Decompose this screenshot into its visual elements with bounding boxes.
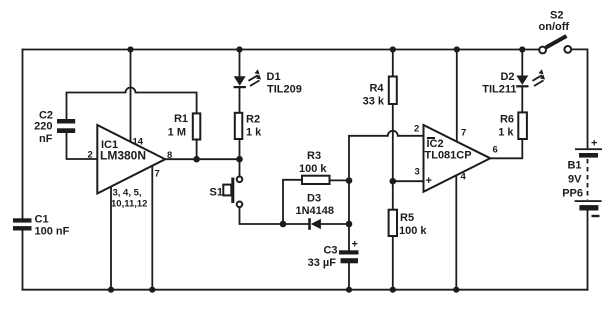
svg-text:4: 4 bbox=[461, 172, 467, 183]
svg-text:LM380N: LM380N bbox=[100, 149, 146, 163]
pushbutton S1 bbox=[210, 177, 243, 208]
svg-text:2: 2 bbox=[88, 150, 93, 161]
wire R4 top lead bbox=[392, 50, 394, 77]
capacitor C2 bbox=[34, 110, 75, 146]
wire IC2 pin 4 to bottom rail bbox=[455, 175, 457, 290]
node junction bottom rail / R5 bbox=[390, 287, 396, 293]
wire left rail upper (top rail to C1) bbox=[22, 50, 24, 219]
wire S1 bottom to D3 cathode bbox=[240, 207, 309, 224]
wire S1 top lead bbox=[239, 159, 241, 176]
svg-text:220: 220 bbox=[34, 121, 52, 133]
svg-text:R3: R3 bbox=[307, 150, 321, 162]
svg-text:7: 7 bbox=[155, 169, 160, 180]
resistor R6 bbox=[498, 112, 527, 139]
wire S2 to battery positive bbox=[571, 49, 588, 148]
wire battery negative to bottom rail bbox=[587, 211, 589, 289]
svg-text:D3: D3 bbox=[307, 193, 321, 205]
svg-text:D1: D1 bbox=[267, 71, 281, 83]
node junction R4 / R5 / pin 3 bbox=[390, 178, 397, 185]
resistor R3 bbox=[299, 150, 330, 184]
svg-text:D2: D2 bbox=[500, 71, 514, 83]
svg-text:1 k: 1 k bbox=[498, 127, 514, 139]
resistor R5 bbox=[389, 210, 428, 237]
svg-text:C3: C3 bbox=[323, 245, 337, 257]
node junction top rail / IC2 pin 7 bbox=[454, 46, 460, 52]
svg-text:+: + bbox=[591, 138, 597, 150]
svg-text:3: 3 bbox=[415, 167, 420, 178]
wire D2 cathode to R6 top bbox=[521, 88, 523, 113]
svg-text:1 k: 1 k bbox=[246, 127, 262, 139]
LED D2 TIL211 bbox=[482, 69, 545, 95]
wire R2 bottom to output node bbox=[239, 139, 241, 159]
wire C2 top to R1 top (hop over pin-14 wire) bbox=[67, 88, 197, 120]
node junction bottom rail / IC1 ground pins bbox=[108, 287, 114, 293]
wire D3 anode to C3 node bbox=[321, 223, 349, 225]
LED D1 TIL209 bbox=[234, 69, 302, 95]
node junction S1 wire / R3 left bbox=[280, 221, 287, 228]
svg-text:S2: S2 bbox=[550, 10, 563, 22]
wire D1 top lead bbox=[239, 50, 241, 77]
wire R4 bottom to R5 top bbox=[392, 104, 394, 210]
node junction top rail / R4 bbox=[390, 46, 396, 52]
op-amp IC1 LM380N bbox=[97, 125, 165, 194]
svg-text:+: + bbox=[352, 239, 358, 251]
svg-text:8: 8 bbox=[167, 150, 172, 161]
wire IC2 pin 6 output to R6 bottom bbox=[490, 139, 522, 158]
wire IC2 pin 2 to C3/R3 node (hop over R4 wire) bbox=[349, 131, 424, 251]
svg-text:33 µF: 33 µF bbox=[308, 257, 337, 269]
wire D2 top lead bbox=[521, 50, 523, 76]
svg-text:10,11,12: 10,11,12 bbox=[111, 199, 147, 210]
capacitor C1 bbox=[13, 214, 70, 238]
wire bottom ground rail bbox=[23, 289, 588, 291]
svg-text:TL081CP: TL081CP bbox=[425, 150, 472, 162]
wire top supply rail bbox=[23, 49, 540, 51]
node junction bottom rail / IC1 pin 7 bbox=[149, 287, 155, 293]
svg-text:R5: R5 bbox=[400, 212, 414, 224]
svg-text:14: 14 bbox=[133, 137, 144, 148]
svg-text:9V: 9V bbox=[568, 174, 582, 186]
wire R1 bottom to output node bbox=[196, 140, 198, 160]
node junction top rail / D1 bbox=[236, 46, 242, 52]
wire IC1 pin 8 output bbox=[165, 158, 240, 160]
resistor R2 bbox=[235, 113, 262, 139]
svg-text:TIL209: TIL209 bbox=[267, 84, 302, 96]
resistor R1 bbox=[168, 113, 201, 140]
node junction D3 / C3 bbox=[346, 221, 353, 228]
svg-text:nF: nF bbox=[39, 133, 53, 145]
svg-text:C1: C1 bbox=[35, 214, 49, 226]
node junction top rail / D2 bbox=[519, 46, 525, 52]
svg-text:B1: B1 bbox=[567, 160, 581, 172]
node junction R3 right / pin2 net bbox=[346, 177, 353, 184]
capacitor C3 (electrolytic) bbox=[308, 239, 359, 270]
node junction output / R1 bbox=[193, 156, 200, 163]
svg-text:1 M: 1 M bbox=[168, 127, 186, 139]
svg-text:TIL211: TIL211 bbox=[482, 84, 516, 96]
svg-text:S1: S1 bbox=[210, 187, 223, 199]
wire R5 bottom to bottom rail bbox=[392, 236, 394, 290]
svg-text:1N4148: 1N4148 bbox=[296, 205, 335, 217]
svg-text:3, 4, 5,: 3, 4, 5, bbox=[113, 188, 142, 199]
svg-text:2: 2 bbox=[414, 124, 419, 135]
wire C3 bottom to bottom rail bbox=[348, 263, 350, 289]
svg-text:33 k: 33 k bbox=[363, 96, 385, 108]
svg-text:+: + bbox=[426, 175, 432, 187]
resistor R4 bbox=[363, 77, 397, 108]
svg-text:R6: R6 bbox=[500, 114, 514, 126]
svg-text:IC2: IC2 bbox=[427, 138, 444, 150]
wire IC1 pin 14 from top rail bbox=[130, 50, 132, 142]
wire IC2 pin 7 from top rail bbox=[456, 50, 458, 142]
op-amp IC2 TL081CP bbox=[424, 125, 491, 192]
svg-text:100 k: 100 k bbox=[399, 225, 427, 237]
wire R3 left lead down to S1 wire bbox=[283, 180, 302, 224]
svg-text:6: 6 bbox=[493, 145, 498, 156]
svg-text:PP6: PP6 bbox=[562, 188, 583, 200]
svg-text:R2: R2 bbox=[246, 114, 260, 126]
wire D1 cathode to R2 bbox=[239, 88, 241, 113]
battery B1 9V PP6 bbox=[562, 138, 602, 218]
svg-text:R4: R4 bbox=[369, 83, 384, 95]
node junction top rail / pin 14 bbox=[127, 46, 133, 52]
node junction output / R2 / S1 bbox=[236, 156, 243, 163]
node junction bottom rail / IC2 pin 4 bbox=[453, 287, 459, 293]
switch S2 on/off bbox=[539, 10, 572, 54]
wire IC2 pin 3 bbox=[393, 180, 424, 182]
svg-text:100 k: 100 k bbox=[299, 163, 327, 175]
wire IC1 ground pins vertical bbox=[110, 187, 112, 290]
wire left rail lower (C1 to bottom rail) bbox=[22, 231, 24, 290]
wire C2 bottom to IC1 pin 2 bbox=[67, 133, 98, 159]
svg-text:7: 7 bbox=[461, 128, 466, 139]
svg-text:on/off: on/off bbox=[539, 21, 570, 33]
node junction bottom rail / C3 bbox=[346, 287, 352, 293]
svg-text:R1: R1 bbox=[174, 113, 188, 125]
diode D3 1N4148 bbox=[296, 193, 335, 230]
svg-text:100 nF: 100 nF bbox=[35, 226, 70, 238]
wire R3 right lead bbox=[330, 179, 350, 181]
wire IC1 pin 7 vertical bbox=[151, 166, 153, 290]
